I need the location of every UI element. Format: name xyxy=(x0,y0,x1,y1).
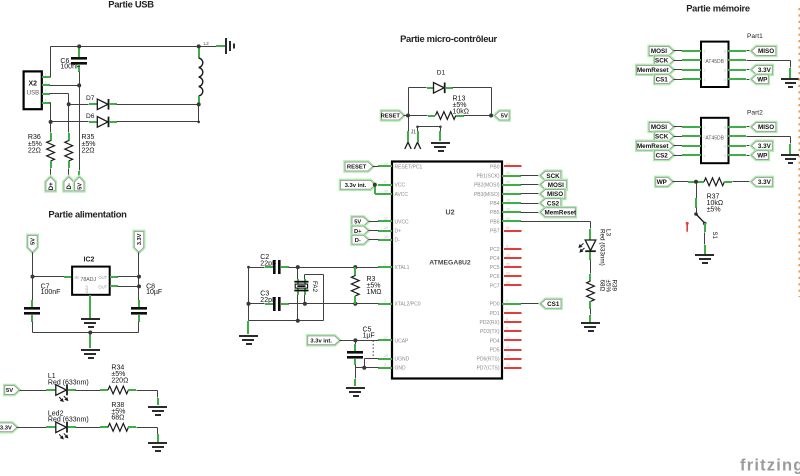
net flag MOSI (Part2) xyxy=(649,123,673,132)
svg-text:3: 3 xyxy=(45,89,47,93)
crystal FA2 xyxy=(294,281,308,292)
svg-text:UCAP: UCAP xyxy=(395,338,410,344)
wire X2 pin4 down to D6 node xyxy=(50,102,51,104)
net flag D+ (at IC) xyxy=(352,226,368,235)
wire MemReset to Part1 pin 3 xyxy=(674,69,683,71)
wire C8 bottom to bottom rail xyxy=(138,315,140,322)
svg-text:22Ω: 22Ω xyxy=(28,148,41,155)
wire RESET flag to RESET/PC1 pin xyxy=(373,166,379,168)
IC2 ADJ pin to ground xyxy=(89,295,91,318)
svg-text:14: 14 xyxy=(506,162,510,166)
wire 5V vertical line down to 5V flag xyxy=(79,86,81,171)
svg-text:5: 5 xyxy=(506,244,508,248)
svg-text:PD7(CTS): PD7(CTS) xyxy=(476,366,499,372)
net flag D- (USB bottom) xyxy=(64,177,73,191)
capacitor C6 xyxy=(71,57,87,65)
wire VCC node down to AVCC xyxy=(374,185,376,194)
wire left vertical to ground (xtal) xyxy=(248,268,250,321)
voltage regulator IC2 78ADJ body xyxy=(72,267,110,295)
svg-text:Partie mémoire: Partie mémoire xyxy=(686,2,750,13)
net flag CS2 xyxy=(541,199,561,208)
wire C7 bottom to bottom rail xyxy=(31,315,33,322)
flash chip Part1 AT45DB body xyxy=(701,42,729,87)
dashed link UCAP-UGND xyxy=(372,340,374,358)
svg-text:VCC: VCC xyxy=(395,183,406,189)
wire D1 cathode to 5V node xyxy=(446,87,453,89)
wire down to C7 xyxy=(32,277,34,301)
capacitor C2 xyxy=(265,266,273,268)
wire 5V flag to LED L1 xyxy=(20,390,47,392)
svg-text:J1: J1 xyxy=(411,130,417,136)
net flag MISO (Part1) xyxy=(752,47,776,56)
IC U2 left pin labels and legs xyxy=(378,162,423,372)
wire XTAL1 net xyxy=(298,267,356,269)
svg-text:PB6: PB6 xyxy=(490,219,500,225)
wire 5V flag to UVCC pin xyxy=(369,221,379,223)
svg-text:L2: L2 xyxy=(204,41,210,47)
wire UCAP net xyxy=(340,340,379,342)
node junction IN/C7 xyxy=(31,275,35,279)
wire Part2 pin5 to WP flag xyxy=(728,154,746,156)
node junction D7/R35 xyxy=(67,102,71,106)
svg-text:5: 5 xyxy=(724,154,726,158)
svg-text:S1: S1 xyxy=(711,232,717,240)
svg-text:D+: D+ xyxy=(395,228,402,234)
svg-text:23: 23 xyxy=(506,281,510,285)
svg-text:PB2(MOSI): PB2(MOSI) xyxy=(474,183,500,189)
wire PB3 to MISO flag xyxy=(521,193,541,195)
wire bottom xtal rail xyxy=(249,320,324,322)
svg-text:PB4: PB4 xyxy=(490,201,500,207)
svg-text:XTAL2/PC0: XTAL2/PC0 xyxy=(395,302,421,308)
svg-text:OUT: OUT xyxy=(98,275,107,280)
svg-text:2: 2 xyxy=(384,299,386,303)
svg-text:5V: 5V xyxy=(77,183,83,190)
svg-text:22Ω: 22Ω xyxy=(82,148,95,155)
svg-text:10µF: 10µF xyxy=(146,289,162,296)
svg-text:4: 4 xyxy=(45,98,47,102)
svg-text:100nF: 100nF xyxy=(60,64,80,71)
net flag 3.3V (Part2) xyxy=(752,141,773,150)
LED L1 xyxy=(56,385,67,396)
wire PB6 to LED L3 xyxy=(521,221,591,223)
svg-text:1: 1 xyxy=(703,126,705,130)
node junction at C6 bottom / 5V line xyxy=(77,83,81,87)
svg-text:AVCC: AVCC xyxy=(395,192,409,198)
net flag MOSI xyxy=(541,180,567,189)
IC U2 right pin labels and legs xyxy=(474,162,522,372)
wire 5V flag down to IN node xyxy=(32,253,34,277)
svg-text:CS1: CS1 xyxy=(547,301,560,308)
ground (Part1) xyxy=(781,78,799,88)
resistor R38 xyxy=(108,423,128,431)
resistor R37 xyxy=(696,181,704,183)
wire switch to ground xyxy=(704,223,706,232)
svg-text:20: 20 xyxy=(506,217,510,221)
svg-text:8: 8 xyxy=(724,50,726,54)
node junction L2 top xyxy=(197,44,201,48)
wire 3.3V flag down through OUT nodes to C8 xyxy=(138,253,140,301)
svg-text:3: 3 xyxy=(703,144,705,148)
IC2 OUT1 wire xyxy=(110,276,118,278)
svg-text:29: 29 xyxy=(384,226,388,230)
net flag CS1 xyxy=(541,299,561,308)
svg-text:1: 1 xyxy=(384,263,386,267)
svg-text:PD1: PD1 xyxy=(490,311,500,317)
ground LED row 1 xyxy=(148,406,167,416)
svg-text:Partie alimentation: Partie alimentation xyxy=(48,209,127,220)
wire J1 pin2 to ground xyxy=(417,127,419,132)
wire X2 pin1 up to top rail xyxy=(50,47,52,78)
svg-text:5V: 5V xyxy=(31,238,37,245)
svg-text:24: 24 xyxy=(384,162,388,166)
wire Part1 pin5 to WP flag xyxy=(728,78,746,80)
wire SCK to Part1 pin 2 xyxy=(674,60,683,62)
net flag 3.3V (alim top) xyxy=(134,231,143,252)
svg-text:6: 6 xyxy=(724,144,726,148)
node junction crystal bottom xyxy=(303,302,307,306)
wire D- flag to pin xyxy=(369,239,379,241)
wire to IC2 IN pin xyxy=(33,276,65,278)
svg-text:3.3V: 3.3V xyxy=(758,179,772,186)
svg-text:3.3v int.: 3.3v int. xyxy=(345,183,367,189)
wire MemReset to Part2 pin 3 xyxy=(674,145,683,147)
net flag 5V (UVCC) xyxy=(352,217,368,226)
svg-text:ADJ: ADJ xyxy=(84,285,89,293)
svg-text:6: 6 xyxy=(724,69,726,73)
svg-text:30: 30 xyxy=(384,235,388,239)
capacitor C5 xyxy=(355,341,357,345)
wire Part1 pin7 (GND) to ground xyxy=(728,59,746,61)
svg-text:MemReset: MemReset xyxy=(637,143,669,150)
wire down to ground (C5) xyxy=(355,368,357,379)
svg-text:MISO: MISO xyxy=(758,48,774,55)
svg-text:IC2: IC2 xyxy=(84,257,95,264)
net flag MemReset xyxy=(541,208,577,217)
net flag 5V (LED row 1) xyxy=(5,386,19,395)
wire SCK to Part2 pin 2 xyxy=(674,136,683,138)
wire L1 to R34 xyxy=(68,389,76,391)
wire bottom rail C7-C8 xyxy=(33,332,139,334)
switch S1 unconnected throw (red) xyxy=(686,222,689,232)
svg-text:UGND: UGND xyxy=(395,357,410,363)
svg-text:MemReset: MemReset xyxy=(637,67,669,74)
net flag 3.3V (LED row 2) xyxy=(0,423,17,432)
wire 3.3V flag to LED Led2 xyxy=(17,427,47,429)
svg-text:21: 21 xyxy=(506,226,510,230)
svg-text:4: 4 xyxy=(384,180,386,184)
wire node down to switch S1 xyxy=(696,182,698,199)
svg-text:32: 32 xyxy=(384,189,388,193)
wire PB2 to MOSI flag xyxy=(521,184,541,186)
svg-text:2: 2 xyxy=(703,59,705,63)
svg-text:PC4: PC4 xyxy=(490,256,500,262)
wire Part1 pin8 to MISO flag xyxy=(728,50,746,52)
wire Part2 pin6 to 3.3V flag xyxy=(728,145,746,147)
svg-text:PB5: PB5 xyxy=(490,210,500,216)
ground below R39 xyxy=(581,322,600,332)
svg-text:8: 8 xyxy=(506,317,508,321)
resistor R13 xyxy=(435,112,455,120)
net flag MISO (Part2) xyxy=(752,123,776,132)
net flag RESET (top) xyxy=(381,111,404,120)
wire xtal case loop xyxy=(305,274,324,276)
net flag SCK (Part1) xyxy=(655,56,674,65)
svg-text:AT45DB: AT45DB xyxy=(705,135,724,141)
wire R38 to ground xyxy=(128,426,136,428)
svg-text:3.3V: 3.3V xyxy=(137,233,143,245)
net flag D+ (USB bottom) xyxy=(46,177,55,191)
wire junction down to ground xyxy=(89,332,91,348)
svg-text:31: 31 xyxy=(384,217,388,221)
svg-text:OUT: OUT xyxy=(98,285,107,290)
svg-text:3.3V: 3.3V xyxy=(0,426,12,432)
svg-text:100nF: 100nF xyxy=(41,289,61,296)
wire D6 cathode to L2 bottom node xyxy=(109,121,117,123)
svg-text:4: 4 xyxy=(703,78,705,82)
svg-text:IN: IN xyxy=(75,275,79,280)
ground below IC2 ADJ xyxy=(81,318,100,328)
ground (Part2) xyxy=(781,154,799,164)
capacitor C3 xyxy=(265,303,273,305)
svg-text:2: 2 xyxy=(45,81,47,85)
svg-text:PB7: PB7 xyxy=(490,228,500,234)
svg-text:16: 16 xyxy=(506,180,510,184)
wire X2 pin3 to D7 node xyxy=(50,93,69,95)
svg-text:PD4: PD4 xyxy=(490,338,500,344)
connector X2 USB body xyxy=(24,71,42,109)
node junction crystal top xyxy=(296,265,300,269)
wire MOSI to Part2 pin 1 xyxy=(674,126,683,128)
svg-text:12: 12 xyxy=(506,354,510,358)
svg-text:18: 18 xyxy=(506,199,510,203)
wire R13 to 5V node xyxy=(456,115,464,117)
svg-text:PD5: PD5 xyxy=(490,347,500,353)
net flag SCK xyxy=(541,171,561,180)
svg-text:3.3V: 3.3V xyxy=(758,143,772,150)
svg-text:10: 10 xyxy=(506,336,510,340)
node junction C5 top xyxy=(353,338,357,342)
net flag MOSI (Part1) xyxy=(649,47,673,56)
svg-text:7: 7 xyxy=(724,59,726,63)
svg-text:Red (633nm): Red (633nm) xyxy=(48,379,89,386)
wire PB4 to CS2 flag xyxy=(521,203,541,205)
svg-text:D+: D+ xyxy=(49,182,55,190)
svg-text:WP: WP xyxy=(657,179,667,186)
diode D6 xyxy=(97,117,108,128)
net flag WP (Part1) xyxy=(752,75,769,84)
node junction 5V/R13 xyxy=(489,114,493,118)
svg-text:GND: GND xyxy=(395,366,407,372)
wire PD0 to CS1 flag xyxy=(521,303,541,305)
ground at J1 xyxy=(431,142,450,152)
net flag RESET (at IC) xyxy=(345,162,373,171)
svg-text:Part2: Part2 xyxy=(747,109,763,116)
svg-text:24: 24 xyxy=(506,272,510,276)
net flag 3.3v int. (VCC) xyxy=(341,180,376,189)
wire L3 to R39 xyxy=(590,260,592,274)
inductor L2 xyxy=(198,46,200,58)
svg-text:MOSI: MOSI xyxy=(651,124,667,131)
node junction L2 bottom / D7 xyxy=(197,102,201,106)
IC U2 ATMEGA8U2 body xyxy=(392,162,502,379)
node junction C3 left xyxy=(247,302,251,306)
svg-text:D6: D6 xyxy=(86,113,95,120)
net flag CS1 (Part1) xyxy=(655,75,674,84)
svg-text:ATMEGA8U2: ATMEGA8U2 xyxy=(429,260,471,267)
node junction RESET xyxy=(406,114,410,118)
svg-text:7: 7 xyxy=(506,308,508,312)
ground below xtal rail xyxy=(247,321,249,334)
wire D7 anode xyxy=(69,104,89,106)
node junction C6 top xyxy=(77,44,81,48)
net flag SCK (Part2) xyxy=(655,132,674,141)
svg-text:PC7: PC7 xyxy=(490,283,500,289)
diode D1 xyxy=(434,83,445,94)
svg-text:X2: X2 xyxy=(29,81,38,88)
svg-text:SCK: SCK xyxy=(655,134,669,141)
svg-text:Red (633nm): Red (633nm) xyxy=(48,417,89,424)
svg-text:MemReset: MemReset xyxy=(545,209,577,216)
net flag 5V (USB bottom) xyxy=(75,177,84,191)
svg-text:26: 26 xyxy=(506,253,510,257)
svg-text:PC6: PC6 xyxy=(490,274,500,280)
net flag CS2 (Part2) xyxy=(655,151,674,160)
svg-text:D1: D1 xyxy=(437,69,446,76)
svg-text:WP: WP xyxy=(757,76,767,83)
wire R34 to ground xyxy=(128,389,136,391)
svg-text:11: 11 xyxy=(506,345,510,349)
wire Part2 pin7 (GND) to ground xyxy=(728,135,746,137)
svg-text:3: 3 xyxy=(703,69,705,73)
net flag 5V (reset circuit) xyxy=(495,111,509,120)
wire Part1 pin6 to 3.3V flag xyxy=(728,69,746,71)
diode D7 xyxy=(97,99,108,110)
wire R39 to ground xyxy=(589,301,591,309)
node junction bottom rail xyxy=(88,331,92,335)
svg-text:8: 8 xyxy=(724,126,726,130)
svg-text:3: 3 xyxy=(384,363,386,367)
flash chip Part2 AT45DB body xyxy=(701,118,729,163)
ground below S1 xyxy=(695,254,714,264)
connector J1 pin1 xyxy=(405,142,411,149)
wire D7 cathode to L2 bottom xyxy=(109,103,117,105)
net flag 5V (alim top) xyxy=(28,235,37,252)
ground below C5 xyxy=(346,387,365,397)
wire D6 anode xyxy=(51,121,89,123)
wire D1 loop left xyxy=(408,88,410,116)
svg-text:D-: D- xyxy=(355,238,361,244)
wire to ground right of L2 xyxy=(199,46,217,48)
svg-text:PD0: PD0 xyxy=(490,302,500,308)
switch S1 xyxy=(694,212,706,225)
net flag 3.3V (Part1) xyxy=(752,65,773,74)
wire RESET node down to J1 pin1 xyxy=(408,116,410,132)
svg-text:D7: D7 xyxy=(86,95,95,102)
ground below alim bottom rail xyxy=(81,349,100,359)
svg-text:Partie USB: Partie USB xyxy=(108,0,154,10)
svg-text:28: 28 xyxy=(384,354,388,358)
wire PB5 to MemReset flag xyxy=(521,212,541,214)
svg-text:27: 27 xyxy=(384,336,388,340)
svg-text:68Ω: 68Ω xyxy=(598,280,605,292)
svg-text:15: 15 xyxy=(506,171,510,175)
net flag D- (at IC) xyxy=(352,235,368,244)
capacitor C8 xyxy=(131,307,147,315)
svg-text:10kΩ: 10kΩ xyxy=(453,109,470,116)
svg-text:1: 1 xyxy=(703,50,705,54)
svg-text:1MΩ: 1MΩ xyxy=(367,289,382,296)
svg-text:PC5: PC5 xyxy=(490,265,500,271)
ground LED row 2 xyxy=(148,442,167,452)
svg-text:U2: U2 xyxy=(446,210,455,217)
svg-text:19: 19 xyxy=(506,208,510,212)
wire CS2 to Part2 pin 4 xyxy=(674,155,683,157)
node junction WP/R37/S1 xyxy=(694,180,698,184)
wire MOSI to Part1 pin 1 xyxy=(674,50,683,52)
net flag WP (pullup row) xyxy=(656,177,673,186)
svg-text:FA2: FA2 xyxy=(311,281,318,293)
svg-text:Partie micro-contrôleur: Partie micro-contrôleur xyxy=(400,33,497,44)
svg-text:AT45DB: AT45DB xyxy=(705,59,724,65)
svg-text:68Ω: 68Ω xyxy=(111,415,124,422)
svg-text:RESET/PC1: RESET/PC1 xyxy=(395,164,423,170)
svg-text:7: 7 xyxy=(724,135,726,139)
net flag MISO xyxy=(541,190,565,199)
svg-text:PB0: PB0 xyxy=(490,164,500,170)
svg-text:3.3v int.: 3.3v int. xyxy=(310,339,332,345)
wire XTAL2 net xyxy=(305,303,356,305)
connector J1 pin2 xyxy=(414,142,420,149)
wire UGND xyxy=(365,358,379,360)
sheet edge marker (dashed) xyxy=(798,8,800,297)
svg-text:SCK: SCK xyxy=(655,58,669,65)
svg-text:PC2: PC2 xyxy=(490,247,500,253)
wire CS1 to Part1 pin 4 xyxy=(674,79,683,81)
svg-text:PB3(MISO): PB3(MISO) xyxy=(474,192,500,198)
resistor R36 xyxy=(50,122,52,133)
svg-text:17: 17 xyxy=(506,189,510,193)
net flag 3.3v int. (UCAP) xyxy=(308,336,340,345)
wire RESET node to R13 xyxy=(409,115,428,117)
node junction xtal bottom xyxy=(296,319,300,323)
svg-text:CS2: CS2 xyxy=(656,152,669,159)
svg-text:Red (633nm): Red (633nm) xyxy=(598,229,605,266)
X2 pin legs xyxy=(42,76,50,78)
svg-text:RESET: RESET xyxy=(381,114,401,120)
wire PB1 to SCK flag xyxy=(521,175,541,177)
svg-text:5V: 5V xyxy=(501,114,508,120)
svg-text:PB1(SCK): PB1(SCK) xyxy=(476,174,499,180)
svg-text:2: 2 xyxy=(703,135,705,139)
net flag MemReset (Part1) xyxy=(637,65,674,74)
IC2 OUT2 wire xyxy=(110,285,118,287)
svg-text:78ADJ: 78ADJ xyxy=(81,277,97,283)
svg-text:Part1: Part1 xyxy=(747,33,763,40)
svg-text:5: 5 xyxy=(724,78,726,82)
resistor R34 xyxy=(108,386,128,394)
svg-text:4: 4 xyxy=(703,154,705,158)
svg-text:220Ω: 220Ω xyxy=(111,377,128,384)
node junction D6/R36 xyxy=(49,120,53,124)
svg-text:XTAL1: XTAL1 xyxy=(395,265,410,271)
wire D+ flag to pin xyxy=(369,230,379,232)
wire to 5V flag xyxy=(492,115,495,117)
svg-text:±5%: ±5% xyxy=(707,206,721,213)
ground (rotated) at L2 xyxy=(225,38,235,54)
fritzing watermark xyxy=(740,457,800,475)
svg-text:PD2(RX): PD2(RX) xyxy=(479,320,499,326)
